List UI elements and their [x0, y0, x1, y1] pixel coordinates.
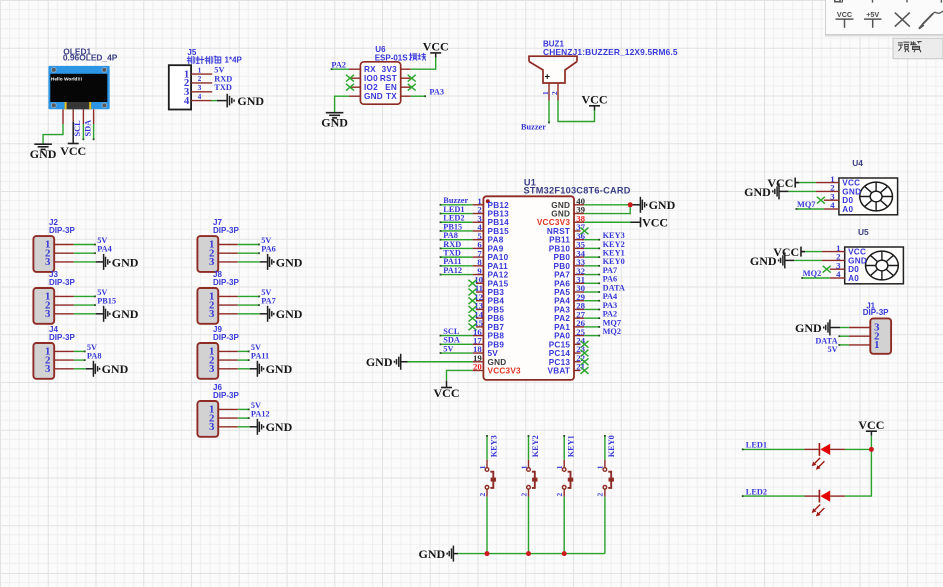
U6 pin RST stub	[401, 77, 411, 79]
wire net 5V	[441, 352, 473, 354]
toolbar no-connect tool icon	[895, 13, 910, 27]
svg-text:3: 3	[209, 421, 215, 433]
svg-text:PC13: PC13	[549, 358, 571, 367]
wire net PA6	[584, 282, 599, 284]
svg-text:GND: GND	[551, 201, 570, 210]
svg-text:DIP-3P: DIP-3P	[49, 278, 75, 287]
no-connect flag RST	[408, 75, 416, 82]
wire net PA2	[332, 68, 350, 70]
svg-text:PB13: PB13	[488, 210, 510, 219]
svg-text:5V: 5V	[261, 236, 271, 245]
U6 pin IO2 stub	[349, 86, 360, 88]
connector J5	[169, 48, 197, 109]
svg-text:2: 2	[519, 493, 528, 497]
J4 pin 2 stub	[54, 359, 74, 361]
svg-text:PA7: PA7	[603, 266, 618, 275]
U5 pin 2 (GND) stub	[822, 259, 845, 261]
wire net KEY3	[584, 239, 599, 241]
svg-text:5V: 5V	[87, 343, 97, 352]
wire VCC rail vertical	[870, 436, 872, 450]
wire net 5V	[238, 244, 259, 246]
svg-text:DIP-3P: DIP-3P	[213, 226, 239, 235]
module U5	[836, 227, 903, 284]
LED LED1	[812, 443, 831, 470]
svg-text:PC14: PC14	[549, 349, 571, 358]
svg-text:GND: GND	[744, 185, 771, 199]
svg-text:LED2: LED2	[443, 214, 464, 223]
wire U1 VCC3V3 down	[447, 370, 473, 380]
svg-text:PA8: PA8	[488, 236, 504, 245]
U1 pin 37 stub	[574, 230, 581, 232]
no-connect flag pin 11	[469, 289, 477, 296]
svg-text:DIP-3P: DIP-3P	[49, 226, 75, 235]
wire net PA11	[238, 359, 249, 361]
svg-text:KEY1: KEY1	[567, 435, 576, 457]
wire J4 pin3 to GND	[74, 368, 86, 370]
svg-text:5V: 5V	[251, 343, 261, 352]
svg-text:PA11: PA11	[251, 352, 269, 361]
U1 pin 22 stub	[574, 361, 581, 363]
svg-text:1: 1	[541, 91, 550, 95]
pushbutton switch KEY3	[478, 465, 496, 496]
svg-text:PA3: PA3	[554, 305, 570, 314]
wire net Buzzer	[548, 101, 550, 123]
svg-text:RX: RX	[364, 65, 376, 74]
svg-text:PB11: PB11	[549, 236, 570, 245]
svg-text:GND: GND	[112, 255, 139, 269]
junction dot at LED1/VCC	[869, 447, 874, 452]
svg-text:2: 2	[198, 74, 202, 83]
U5 pin 3 (D0) stub	[830, 268, 845, 270]
svg-text:GND: GND	[30, 147, 57, 161]
svg-text:D0: D0	[848, 265, 859, 274]
toolbar partial icons at top edge	[835, 0, 942, 3]
power flag VCC at BUZ1	[582, 93, 608, 111]
junction dot	[628, 202, 633, 207]
svg-text:3: 3	[209, 308, 215, 320]
svg-text:PA11: PA11	[443, 257, 461, 266]
no-connect flag pin 22	[581, 358, 589, 365]
no-connect flag U4 D0	[817, 197, 825, 204]
svg-text:PA1: PA1	[554, 323, 570, 332]
GND rail wire	[458, 553, 605, 555]
U1 pin 40 stub	[574, 204, 584, 206]
toolbar pen tool icon	[918, 11, 943, 29]
U1 pin 1 stub	[473, 204, 484, 206]
ground flag at J6	[257, 419, 292, 435]
svg-text:GND: GND	[276, 255, 303, 269]
svg-text:2: 2	[596, 493, 605, 497]
svg-text:3: 3	[45, 256, 51, 268]
svg-text:PC15: PC15	[549, 340, 571, 349]
svg-text:VCC: VCC	[60, 144, 86, 158]
no-connect flag EN	[408, 84, 416, 91]
svg-text:1: 1	[874, 339, 879, 351]
wire net MQ2	[584, 335, 599, 337]
wire net MQ7	[584, 326, 599, 328]
svg-text:LED1: LED1	[746, 441, 767, 450]
wire net DATA	[839, 335, 849, 337]
wire U1 VCC3V3 to flag	[584, 221, 630, 223]
wire U4 VCC	[799, 182, 816, 184]
svg-text:PB9: PB9	[488, 340, 505, 349]
svg-text:A0: A0	[848, 274, 859, 283]
wire net KEY1	[584, 256, 599, 258]
wire BUZ1 pin2 to VCC	[558, 101, 595, 122]
svg-text:PA2: PA2	[603, 310, 618, 319]
U1 pin 13 stub	[476, 308, 483, 310]
U1 pin 33 stub	[574, 265, 584, 267]
U1 left pin names	[488, 201, 522, 376]
svg-text:PA7: PA7	[554, 271, 570, 280]
U1 right pin names	[537, 201, 571, 376]
U1 pin 17 stub	[473, 343, 484, 345]
wire net PB15	[441, 230, 473, 232]
svg-text:5V: 5V	[97, 236, 107, 245]
wire J3 pin3 to GND	[74, 313, 96, 315]
svg-text:SDA: SDA	[443, 336, 460, 345]
U6 pin IO0 stub	[349, 77, 360, 79]
wire J6 pin3 to GND	[238, 426, 250, 428]
wire U1 GND to flag	[408, 361, 473, 363]
wire U1 pin39 joins pin40	[584, 205, 630, 214]
wire net PA3	[584, 308, 599, 310]
KEY0 pin stubs	[604, 460, 606, 468]
pushbutton switch KEY2	[519, 465, 537, 496]
U1 pin 31 stub	[574, 282, 584, 284]
svg-text:SDA: SDA	[84, 120, 93, 137]
wire J2 pin3 to GND	[74, 261, 96, 263]
svg-text:PA8: PA8	[87, 352, 102, 361]
J4 pin 3 stub	[54, 368, 74, 370]
no-connect flag pin 14	[469, 315, 477, 322]
wire net MQ7	[796, 208, 824, 210]
ground flag at J5	[227, 94, 264, 108]
wire net 5V	[238, 295, 259, 297]
svg-text:Buzzer: Buzzer	[521, 122, 546, 131]
J5 value label	[187, 56, 242, 65]
wire net PA11	[441, 265, 473, 267]
wire net 5V	[74, 295, 95, 297]
wire net PA2	[584, 317, 599, 319]
wire OLED1 pin1 to GND	[43, 124, 63, 144]
J2 pin 1 stub	[54, 244, 74, 246]
U1 pin 21 stub	[574, 369, 581, 371]
wire net MQ2	[802, 277, 830, 279]
U1 pin 20 stub	[473, 369, 484, 371]
svg-text:4: 4	[198, 92, 202, 101]
wire net LED2	[441, 221, 473, 223]
connector J1	[863, 301, 891, 354]
no-connect flag pin 13	[469, 306, 477, 313]
wire LED1 to VCC rail	[845, 448, 872, 450]
svg-text:PB15: PB15	[97, 297, 116, 306]
IC U1 STM32F103C8T6-CARD	[483, 177, 630, 380]
svg-text:A0: A0	[842, 205, 853, 214]
wire net PA7	[238, 304, 259, 306]
svg-text:VCC: VCC	[858, 418, 884, 432]
svg-text:GND: GND	[276, 307, 303, 321]
ground flag at J4	[93, 361, 128, 377]
U1 pin 14 stub	[476, 317, 483, 319]
power flag VCC at U5	[773, 245, 805, 259]
U6 value CJK	[409, 53, 417, 60]
svg-text:VCC: VCC	[848, 248, 866, 257]
U6 pin 3V3 stub	[401, 68, 411, 70]
svg-text:PA4: PA4	[603, 292, 618, 301]
svg-text:MQ2: MQ2	[803, 269, 821, 278]
J5 pin 2 stub	[191, 82, 212, 84]
no-connect flag IO0	[346, 75, 354, 82]
svg-text:VCC: VCC	[837, 10, 852, 19]
wire net 5V	[74, 350, 85, 352]
KEY3 pin stubs	[486, 460, 488, 468]
U1 pin 7 stub	[473, 256, 484, 258]
svg-text:3: 3	[45, 308, 51, 320]
U1 pin 10 stub	[476, 282, 483, 284]
svg-text:GND: GND	[750, 254, 777, 268]
no-connect flag pin 21	[581, 367, 589, 374]
svg-text:GND: GND	[364, 92, 383, 101]
U1 pin 4 stub	[473, 230, 484, 232]
no-connect flag pin 12	[469, 297, 477, 304]
J9 pin 2 stub	[218, 359, 238, 361]
svg-text:Buzzer: Buzzer	[443, 196, 468, 205]
wire OLED1 pin2 to VCC	[72, 122, 74, 144]
wire KEY0 to GND rail	[604, 497, 606, 554]
svg-text:GND: GND	[266, 420, 293, 434]
wire net Buzzer	[441, 204, 473, 206]
toolbar panel overlay	[825, 0, 943, 36]
svg-text:0.96OLED_4P: 0.96OLED_4P	[63, 53, 118, 63]
wire net SDA	[93, 124, 95, 139]
junction dot KEY1	[562, 551, 567, 556]
svg-text:3: 3	[198, 83, 202, 92]
svg-text:PA3: PA3	[603, 301, 618, 310]
svg-text:PB14: PB14	[488, 218, 510, 227]
wire net KEY0	[584, 265, 599, 267]
svg-text:U5: U5	[858, 227, 869, 237]
svg-text:3: 3	[209, 363, 215, 375]
U1 pin 11 stub	[476, 291, 483, 293]
no-connect flag IO2	[346, 84, 354, 91]
J6 pin 3 stub	[218, 426, 238, 428]
wire KEY3 to GND rail	[486, 497, 488, 554]
pushbutton switch KEY1	[555, 465, 573, 496]
wire net LED1	[441, 213, 473, 215]
svg-text:5V: 5V	[488, 349, 499, 358]
LED1 anode/cathode stubs	[805, 448, 820, 450]
pushbutton switch KEY0	[596, 465, 614, 496]
svg-text:SCL: SCL	[73, 120, 82, 137]
wire U6 3V3 to VCC	[411, 57, 436, 70]
svg-text:PA9: PA9	[488, 244, 504, 253]
OLED display OLED1	[48, 46, 117, 109]
svg-text:RXD: RXD	[214, 74, 232, 83]
U4 pin 2 (GND) stub	[816, 190, 839, 192]
ground flag at U6	[321, 113, 348, 130]
LED LED2	[812, 490, 831, 517]
svg-text:VCC: VCC	[773, 245, 799, 259]
svg-text:PB3: PB3	[488, 288, 505, 297]
U1 pin 34 stub	[574, 256, 584, 258]
svg-text:PA2: PA2	[331, 60, 346, 69]
svg-text:5V: 5V	[97, 288, 107, 297]
svg-text:PA6: PA6	[261, 245, 276, 254]
svg-text:PA10: PA10	[488, 253, 509, 262]
wire KEY1 to GND rail	[563, 497, 565, 554]
svg-text:GND: GND	[848, 256, 867, 265]
svg-text:J5: J5	[187, 48, 196, 57]
connector J2	[33, 218, 75, 272]
OLED1 pin 4 stub	[93, 109, 95, 124]
svg-text:PA0: PA0	[554, 332, 570, 341]
svg-text:LED1: LED1	[443, 205, 464, 214]
toolbar +5V tool icon	[864, 10, 882, 28]
svg-text:GND: GND	[237, 94, 264, 108]
svg-text:DIP-3P: DIP-3P	[213, 391, 239, 400]
J8 pin 3 stub	[218, 313, 238, 315]
U1 pin 36 stub	[574, 239, 584, 241]
J8 pin 2 stub	[218, 304, 238, 306]
ground flag at J1	[795, 320, 830, 336]
J1 pin 1 stub	[849, 344, 870, 346]
svg-text:PA12: PA12	[488, 271, 509, 280]
junction dot KEY3	[485, 551, 490, 556]
svg-text:GND: GND	[842, 187, 861, 196]
svg-text:DIP-3P: DIP-3P	[49, 333, 75, 342]
U6 pin TX stub	[401, 95, 411, 97]
ground flag at U4	[744, 183, 779, 199]
svg-text:PB15: PB15	[488, 227, 510, 236]
OLED1 pin 2 stub	[72, 109, 74, 121]
svg-text:PB5: PB5	[488, 305, 505, 314]
U1 pin 6 stub	[473, 247, 484, 249]
wire net KEY2	[528, 436, 530, 460]
wire net PA7	[584, 274, 599, 276]
svg-text:GND: GND	[112, 307, 139, 321]
svg-text:GND: GND	[551, 210, 570, 219]
wire net KEY3	[486, 436, 488, 460]
wire J8 pin3 to GND	[238, 313, 260, 315]
svg-text:PA12: PA12	[251, 410, 270, 419]
no-connect flag pin 10	[469, 280, 477, 287]
J6 pin 1 stub	[218, 408, 238, 410]
J5 pin 4 stub	[191, 100, 212, 102]
connector J8	[197, 270, 239, 324]
wire J1 pin3 to GND	[840, 327, 849, 329]
svg-text:1: 1	[519, 465, 528, 469]
svg-text:2: 2	[478, 493, 487, 497]
svg-text:RST: RST	[380, 74, 397, 83]
U1 pin 18 stub	[473, 352, 484, 354]
OLED1 pin 3 stub	[82, 109, 84, 124]
wire U4 GND	[788, 190, 816, 192]
svg-text:PB6: PB6	[488, 314, 505, 323]
svg-text:+5V: +5V	[866, 10, 879, 19]
J3 pin 3 stub	[54, 313, 74, 315]
power flag VCC at U1 pin38	[631, 215, 669, 229]
no-connect flag U5 D0	[823, 266, 831, 273]
J5 pin 3 stub	[191, 91, 212, 93]
BUZ1 pin 1 stub	[548, 83, 550, 101]
no-connect flag pin 37	[581, 228, 589, 235]
J2 pin 3 stub	[54, 261, 74, 263]
svg-text:PA12: PA12	[443, 266, 462, 275]
wire net SCL	[441, 335, 473, 337]
wire U5 GND	[794, 259, 822, 261]
svg-text:5V: 5V	[261, 288, 271, 297]
svg-text:KEY1: KEY1	[603, 249, 625, 258]
connector J4	[33, 325, 75, 379]
svg-text:TXD: TXD	[443, 249, 461, 258]
U4 pin 4 (A0) stub	[824, 208, 839, 210]
svg-text:GND: GND	[366, 355, 393, 369]
power flag VCC at U6	[423, 40, 449, 58]
J9 pin 3 stub	[218, 368, 238, 370]
svg-text:MQ7: MQ7	[797, 200, 815, 209]
ground flag at J9	[257, 361, 292, 377]
wire net PA8	[74, 359, 85, 361]
no-connect flag pin 23	[581, 350, 589, 357]
svg-text:IO0: IO0	[364, 74, 378, 83]
wire net PA8	[441, 239, 473, 241]
module U4	[830, 158, 897, 215]
power flag VCC at U4	[767, 176, 799, 190]
svg-text:VCC: VCC	[423, 40, 449, 54]
svg-text:PA3: PA3	[429, 87, 444, 96]
ground flag at J2	[104, 254, 139, 270]
U1 pin 24 stub	[574, 343, 581, 345]
svg-text:5V: 5V	[827, 345, 837, 354]
svg-text:1: 1	[555, 465, 564, 469]
LED2 anode/cathode stubs	[805, 495, 820, 497]
connector J7	[197, 218, 239, 272]
wire net DATA	[584, 291, 599, 293]
KEY1 pin stubs	[563, 460, 565, 468]
ground flag at U5	[750, 252, 785, 268]
svg-text:PA2: PA2	[554, 314, 570, 323]
wire net TXD	[441, 256, 473, 258]
wire net PA4	[74, 252, 95, 254]
wire net KEY0	[604, 436, 606, 460]
svg-text:LED2: LED2	[746, 487, 767, 496]
J3 pin 2 stub	[54, 304, 74, 306]
svg-text:PA4: PA4	[554, 297, 570, 306]
ground flag at U1 pin19	[366, 354, 401, 370]
toolbar VCC tool icon	[836, 10, 854, 28]
svg-text:5V: 5V	[214, 66, 224, 75]
svg-text:KEY3: KEY3	[603, 231, 625, 240]
J1 pin 3 stub	[849, 327, 870, 329]
wire LED2 to VCC rail	[845, 449, 872, 496]
svg-text:PB12: PB12	[488, 201, 510, 210]
J2 pin 2 stub	[54, 252, 74, 254]
BUZ1 pin 2 stub	[557, 83, 559, 101]
svg-text:PB7: PB7	[488, 323, 505, 332]
svg-text:1: 1	[596, 465, 605, 469]
svg-text:GND: GND	[321, 116, 348, 130]
svg-text:1*4P: 1*4P	[225, 56, 243, 65]
ground flag at J8	[268, 306, 303, 322]
svg-text:PB8: PB8	[488, 332, 505, 341]
J1 pin 2 stub	[849, 335, 870, 337]
wire U1 GND to flag	[584, 204, 630, 206]
svg-text:1: 1	[198, 65, 202, 74]
svg-text:PA7: PA7	[261, 297, 276, 306]
J8 pin 1 stub	[218, 295, 238, 297]
U1 pin 19 stub	[473, 361, 484, 363]
